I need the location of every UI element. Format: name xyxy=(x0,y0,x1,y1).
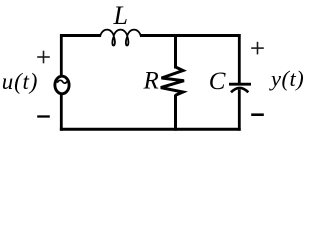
svg-text:C: C xyxy=(209,68,226,95)
polarity + (output side) xyxy=(251,42,264,55)
inductor L (coil) xyxy=(100,30,141,46)
svg-text:R: R xyxy=(143,67,159,94)
wire bottom horizontal xyxy=(60,128,241,131)
wire left vertical upper (corner to source) xyxy=(60,34,63,77)
wire middle vertical upper (top wire to resistor) xyxy=(174,34,177,69)
wire right vertical upper (top corner to capacitor) xyxy=(238,34,241,84)
polarity - (output side) xyxy=(251,113,264,116)
polarity - (input side) xyxy=(37,115,50,117)
svg-text:L: L xyxy=(113,1,128,30)
wire left vertical lower (source to bottom wire) xyxy=(60,93,63,131)
wire middle vertical lower (resistor to bottom wire) xyxy=(174,95,177,131)
polarity + (input side) xyxy=(37,51,50,64)
resistor R (zigzag) xyxy=(161,67,184,95)
wire right vertical lower (capacitor to bottom corner) xyxy=(238,90,241,131)
wire top-right horizontal (inductor to capacitor corner) xyxy=(141,34,241,37)
svg-text:u(t): u(t) xyxy=(2,69,38,94)
capacitor C xyxy=(229,84,251,92)
wire top-left horizontal (source top to inductor) xyxy=(60,34,101,37)
voltage source u(t) (AC source circle) xyxy=(55,76,69,94)
svg-text:y(t): y(t) xyxy=(269,66,304,91)
